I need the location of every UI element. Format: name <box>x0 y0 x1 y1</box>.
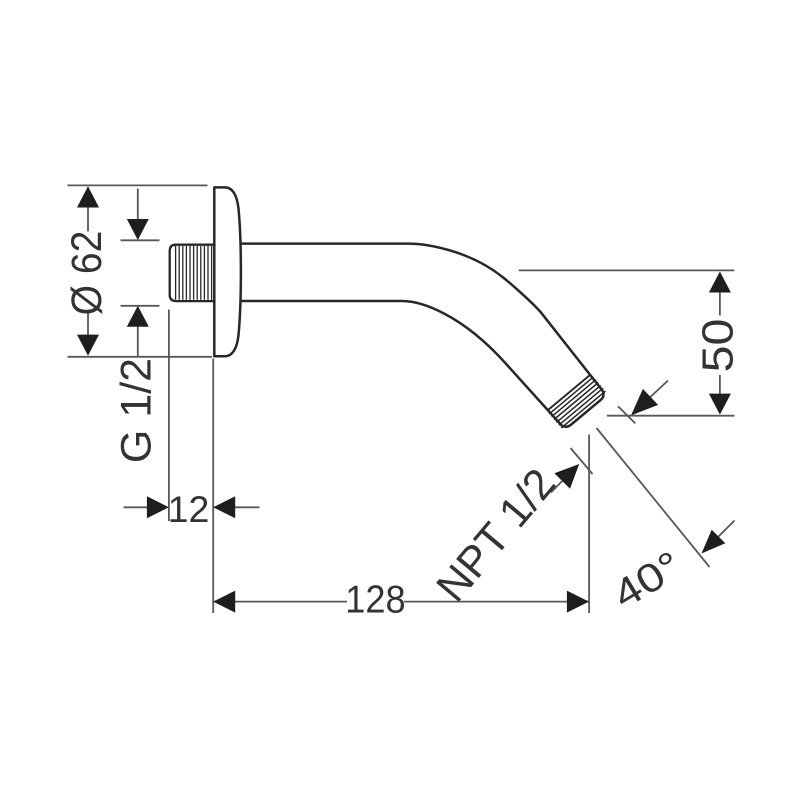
svg-text:128: 128 <box>345 577 405 620</box>
svg-text:12: 12 <box>168 488 210 530</box>
svg-text:50: 50 <box>693 319 742 373</box>
svg-text:Ø 62: Ø 62 <box>62 231 110 316</box>
svg-text:G 1/2: G 1/2 <box>112 358 160 463</box>
